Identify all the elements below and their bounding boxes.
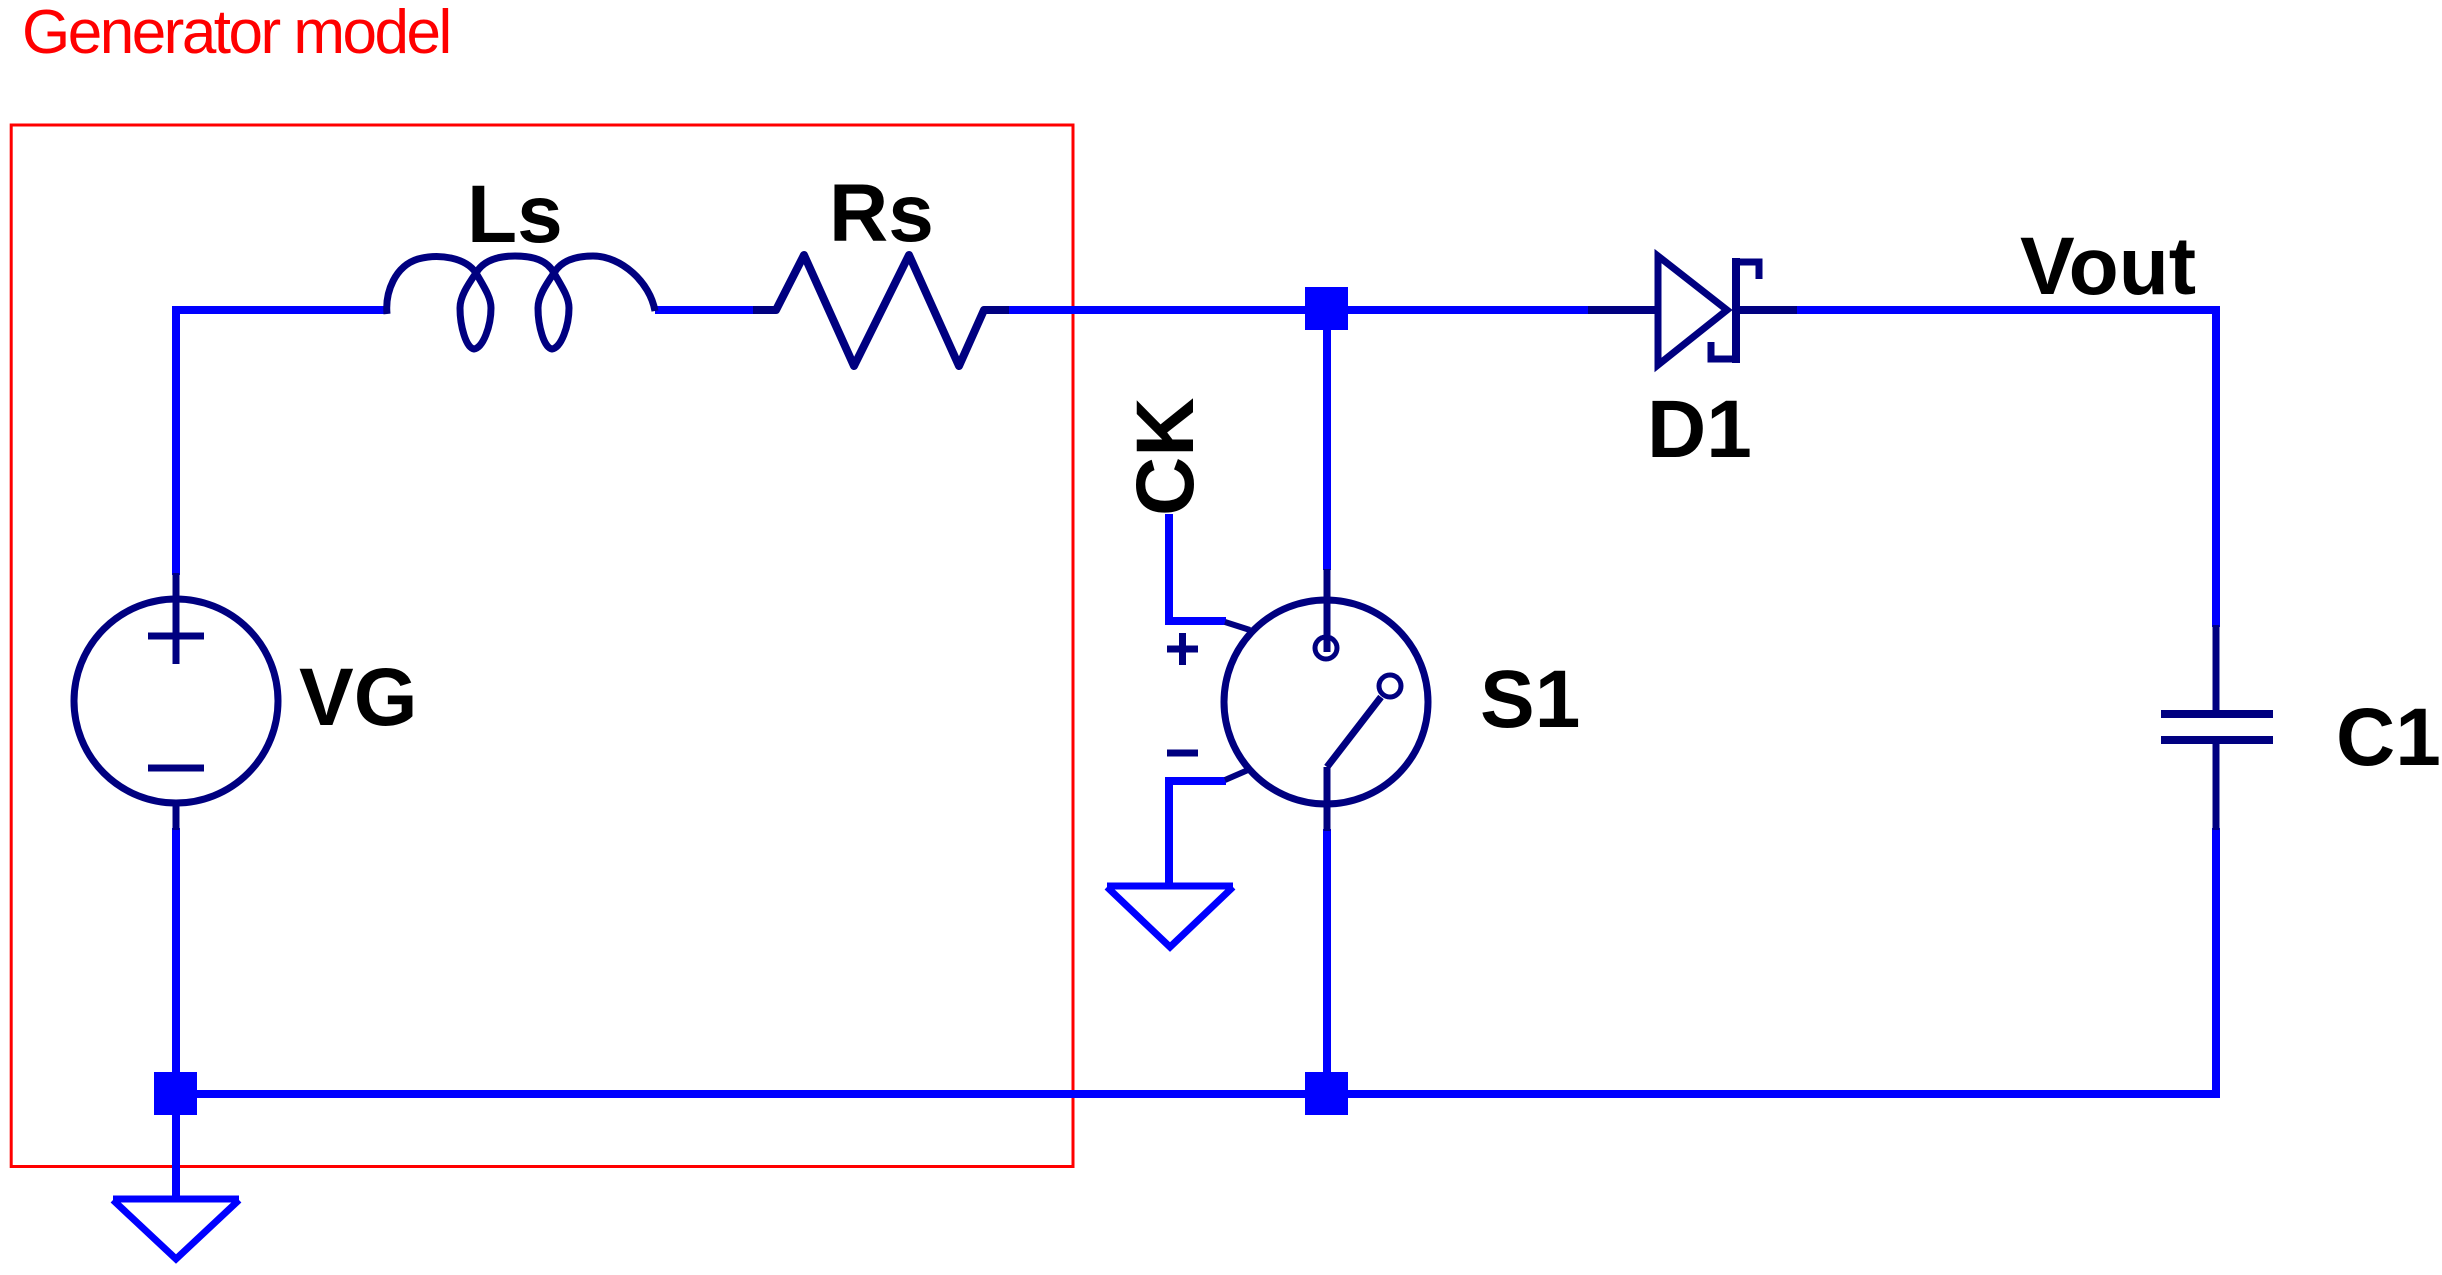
ground (switch control ground) xyxy=(1107,886,1233,947)
wire: resistor to diode (through top junction) xyxy=(1009,306,1590,314)
svg-text:CK: CK xyxy=(1120,398,1211,516)
wire: switch S1 down to bottom junction xyxy=(1323,829,1331,1094)
label Ls xyxy=(467,169,563,260)
svg-text:VG: VG xyxy=(299,652,417,743)
label S1 xyxy=(1480,654,1580,745)
inductor Ls (coil symbol) xyxy=(387,256,655,349)
switch S1 (circle with lever) xyxy=(1224,569,1428,831)
svg-text:D1: D1 xyxy=(1647,384,1752,475)
junction: bottom left node xyxy=(154,1072,197,1115)
wire: switch minus control terminal to control ground xyxy=(1169,781,1226,888)
svg-text:Generator model: Generator model xyxy=(22,0,450,67)
wire: left junction down to ground xyxy=(172,1094,180,1199)
svg-text:Vout: Vout xyxy=(2020,221,2196,312)
resistor Rs (zigzag symbol) xyxy=(753,255,1009,366)
wire: inductor to resistor xyxy=(655,306,756,314)
net label Vout xyxy=(2020,221,2196,312)
voltage source VG (circle symbol) xyxy=(74,573,278,830)
label Rs xyxy=(829,168,934,259)
diode D1 (schottky) xyxy=(1588,256,1797,365)
svg-text:S1: S1 xyxy=(1480,654,1580,745)
wire: top junction down to switch S1 xyxy=(1323,310,1331,570)
junction: bottom node at switch branch xyxy=(1305,1072,1348,1115)
wire: CK net to switch plus control terminal xyxy=(1169,514,1226,621)
svg-text:C1: C1 xyxy=(2336,692,2441,783)
generator model boundary box (red) xyxy=(11,125,1073,1167)
svg-text:Ls: Ls xyxy=(467,169,563,260)
capacitor C1 xyxy=(2161,625,2273,830)
net label CK (rotated) xyxy=(1120,398,1211,516)
VG minus mark xyxy=(148,765,204,772)
label C1 xyxy=(2336,692,2441,783)
wire: diode cathode to Vout corner, down right rail xyxy=(1795,310,2216,627)
annotation text "Generator model" xyxy=(22,0,450,67)
junction: top node at switch branch xyxy=(1305,287,1348,330)
wire: VG top / left rail / top rail to inductor xyxy=(176,310,387,575)
VG plus mark xyxy=(148,633,204,640)
wire: capacitor bottom to bottom rail (right corner, across bottom) xyxy=(176,828,2216,1094)
svg-text:Rs: Rs xyxy=(829,168,934,259)
switch minus control mark xyxy=(1167,750,1198,757)
label VG xyxy=(299,652,417,743)
ground (bottom left, power ground) xyxy=(113,1199,239,1259)
label D1 xyxy=(1647,384,1752,475)
wire: VG bottom to left junction xyxy=(172,828,180,1094)
switch plus control mark xyxy=(1167,633,1198,665)
